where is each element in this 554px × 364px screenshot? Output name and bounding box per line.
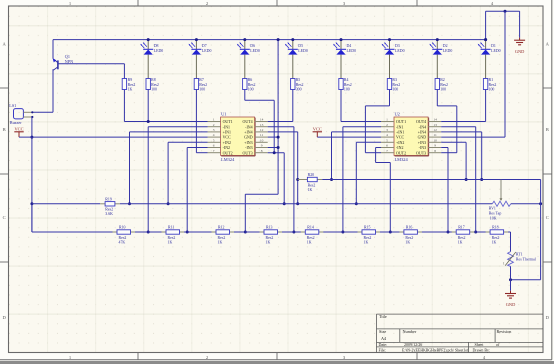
pin U2.6 -IN2	[381, 144, 394, 148]
svg-text:47K: 47K	[119, 241, 126, 245]
svg-text:Res Tap: Res Tap	[489, 211, 502, 215]
svg-text:R1: R1	[489, 78, 494, 82]
wire U2 +IN2	[356, 141, 381, 143]
pin U1.5 +IN2	[208, 138, 221, 142]
svg-text:Res2: Res2	[105, 208, 113, 212]
svg-text:13: 13	[260, 123, 264, 127]
svg-text:t: t	[503, 261, 504, 265]
svg-text:11: 11	[433, 133, 437, 137]
svg-text:1K: 1K	[405, 241, 410, 245]
window bottom bar	[0, 361, 554, 364]
sheet outer border right	[551, 0, 553, 360]
wire RV1 arch	[540, 180, 542, 280]
svg-text:4: 4	[386, 133, 388, 137]
svg-text:LED0: LED0	[491, 49, 501, 53]
pin U1.12 +IN4	[255, 128, 268, 132]
svg-text:Revision: Revision	[497, 329, 513, 334]
wire U2 GND riser	[504, 11, 506, 137]
svg-text:Drawn By:: Drawn By:	[473, 347, 491, 352]
node GND ladder tap	[244, 231, 247, 234]
wire RT1 bottom link	[511, 279, 541, 281]
pin U1.10 +IN3	[255, 138, 268, 142]
svg-text:Res2: Res2	[458, 236, 466, 240]
svg-text:U2: U2	[395, 111, 400, 116]
svg-text:Res2: Res2	[364, 236, 372, 240]
svg-text:OUT2: OUT2	[396, 150, 406, 155]
svg-text:1K: 1K	[128, 88, 133, 92]
LED D2	[429, 40, 452, 79]
resistor R2	[435, 78, 448, 91]
wire GND bus top	[486, 10, 520, 12]
pin U2.8 OUT3	[428, 149, 441, 153]
pin U1.3 +IN1	[208, 128, 221, 132]
svg-text:6: 6	[386, 144, 388, 148]
wire U1 -IN4	[268, 126, 294, 128]
svg-text:Buzzer: Buzzer	[10, 120, 22, 125]
LED D1	[478, 40, 501, 79]
LED D3	[382, 40, 405, 79]
ground GND top right	[519, 38, 521, 41]
wire OUT3 to ref chain	[283, 153, 285, 204]
wire D6 column to U1 OUT3	[244, 90, 246, 101]
node U2 +IN1 tap	[330, 178, 333, 181]
svg-text:R7: R7	[199, 78, 204, 82]
wire U2 +IN4	[441, 131, 482, 133]
svg-text:2: 2	[386, 123, 388, 127]
node bus GND drop junctions	[277, 38, 280, 41]
wire U1 +IN4	[268, 131, 298, 133]
resistor R7	[194, 78, 207, 91]
svg-text:C: C	[546, 215, 549, 220]
svg-text:VCC: VCC	[14, 126, 23, 131]
svg-text:U1: U1	[221, 111, 226, 116]
svg-text:LED0: LED0	[202, 49, 212, 53]
svg-text:12: 12	[433, 128, 437, 132]
wire bus GND drop	[277, 40, 279, 195]
svg-text:R13: R13	[266, 226, 273, 230]
node OUT3 ref tap	[283, 202, 286, 205]
svg-text:OUT2: OUT2	[223, 150, 233, 155]
svg-text:Res2: Res2	[296, 83, 304, 87]
pin LS1.2	[23, 116, 32, 118]
pin U1.7 OUT2	[208, 149, 221, 153]
node U2 -IN2 ladder tap	[389, 231, 392, 234]
resistor R12	[212, 226, 235, 245]
node OUT3 junction	[273, 151, 276, 154]
node U2 +IN2 ref tap	[355, 202, 358, 205]
wire U2 -IN3	[441, 147, 448, 149]
resistor R15	[358, 226, 381, 245]
svg-text:Res2: Res2	[440, 83, 448, 87]
wire U1 GND stub	[268, 136, 278, 138]
node bus junction D2	[436, 38, 439, 41]
svg-text:RV1: RV1	[489, 206, 496, 210]
wire U2 -IN1	[343, 126, 381, 128]
svg-text:9: 9	[434, 144, 436, 148]
wire D7 column to U1 OUT2	[195, 90, 197, 153]
zone divider ticks	[0, 87, 9, 89]
svg-text:OUT3: OUT3	[243, 150, 253, 155]
svg-text:R11: R11	[168, 226, 174, 230]
svg-text:7: 7	[213, 149, 215, 153]
svg-text:1: 1	[213, 118, 215, 122]
pin U2.1 OUT1	[381, 118, 394, 122]
svg-text:D6: D6	[250, 44, 255, 48]
svg-text:Number: Number	[403, 329, 417, 334]
wire wiper rail	[298, 179, 308, 181]
resistor R18	[486, 226, 509, 245]
pin U1.8 OUT3	[255, 149, 268, 153]
svg-text:R14: R14	[307, 226, 314, 230]
svg-text:10K: 10K	[490, 216, 497, 220]
wire U2 +IN3	[441, 141, 466, 143]
node bus junction D5	[291, 38, 294, 41]
svg-text:D2: D2	[443, 44, 448, 48]
resistor R11	[162, 226, 185, 245]
node -IN4 ladder tap	[292, 231, 295, 234]
node D8-OUT1 junction	[147, 120, 150, 123]
pin U2.3 +IN1	[381, 128, 394, 132]
svg-text:100: 100	[151, 88, 157, 92]
svg-text:100: 100	[248, 88, 254, 92]
pin U2.7 OUT2	[381, 149, 394, 153]
svg-text:12: 12	[260, 128, 264, 132]
svg-text:1K: 1K	[458, 241, 463, 245]
svg-text:13: 13	[433, 123, 437, 127]
wire RV1 right	[511, 203, 541, 205]
svg-text:Res Thermal: Res Thermal	[516, 258, 536, 262]
svg-text:C: C	[3, 215, 6, 220]
svg-text:100: 100	[199, 88, 205, 92]
pin U2.11 GND	[428, 133, 441, 137]
svg-text:14: 14	[433, 118, 437, 122]
svg-text:E:\09-2\(EEHKBGHteBPF2).pcb\ S: E:\09-2\(EEHKBGHteBPF2).pcb\ Sheet1of	[402, 348, 469, 352]
node bus-GND junction	[504, 10, 507, 13]
resistor R4	[339, 78, 352, 91]
pin U1.4 VCC	[208, 133, 221, 137]
svg-text:LM324: LM324	[395, 157, 409, 162]
pin U1.6 -IN2	[208, 144, 221, 148]
wire U2 +IN1	[332, 131, 382, 133]
wire U1 -IN3 stub	[268, 147, 278, 149]
svg-text:D8: D8	[154, 44, 159, 48]
svg-text:R10: R10	[119, 226, 126, 230]
pin U2.10 +IN3	[428, 138, 441, 142]
node U2 +IN3 tap	[465, 178, 468, 181]
wire U1 -IN2	[187, 147, 207, 149]
svg-text:Res2: Res2	[128, 83, 136, 87]
svg-text:R9: R9	[128, 78, 133, 82]
svg-text:LED0: LED0	[298, 49, 308, 53]
pin U2.2 -IN1	[381, 123, 394, 127]
ground GND bottom	[505, 293, 516, 295]
wire U1 +IN1	[130, 131, 208, 133]
potentiometer RV1 wiper arm	[500, 180, 502, 199]
resistor R8	[146, 78, 159, 91]
svg-text:1K: 1K	[168, 241, 173, 245]
wire D8 column	[147, 90, 149, 122]
svg-text:Size: Size	[379, 329, 386, 334]
wire D1 column to U2 OUT4	[485, 90, 487, 122]
wire RT1 to GND	[510, 266, 512, 279]
svg-text:1K: 1K	[308, 188, 313, 192]
op-amp U1	[221, 111, 256, 161]
svg-text:D1: D1	[491, 44, 496, 48]
svg-text:D7: D7	[202, 44, 207, 48]
svg-text:D5: D5	[298, 44, 303, 48]
resistor R16	[399, 226, 422, 245]
pin LS1.1	[23, 111, 32, 113]
svg-text:LED0: LED0	[347, 49, 357, 53]
svg-text:LS1: LS1	[9, 103, 16, 108]
svg-text:1: 1	[386, 118, 388, 122]
wire D2 column to U2 OUT3	[436, 90, 438, 106]
node bus junction D6	[243, 38, 246, 41]
node U2 -IN4 ladder tap	[474, 231, 477, 234]
svg-text:R12: R12	[218, 226, 225, 230]
node RV1 right junction	[539, 202, 542, 205]
svg-text:5: 5	[386, 138, 388, 142]
node -IN1 ladder tap	[147, 231, 150, 234]
node bus junction D1	[484, 38, 487, 41]
wire Q1 collector to buzzer	[32, 111, 53, 113]
wire D3 column to U2 OUT2	[389, 90, 391, 106]
wire U1 -IN1	[148, 126, 207, 128]
svg-text:A4: A4	[381, 336, 387, 341]
svg-text:7: 7	[386, 149, 388, 153]
wire GND stem top right	[519, 11, 521, 37]
wire U2 -IN2	[376, 147, 381, 149]
resistor R17	[452, 226, 475, 245]
node VCC junction	[30, 136, 33, 139]
svg-text:B: B	[546, 127, 549, 132]
wire Q1 base	[58, 63, 125, 65]
transistor Q1	[52, 40, 54, 59]
svg-text:100: 100	[440, 88, 446, 92]
resistor R5	[291, 78, 304, 91]
svg-text:NPN: NPN	[65, 59, 73, 64]
svg-text:R15: R15	[364, 226, 371, 230]
pin U2.9 -IN3	[428, 144, 441, 148]
pin U1.14 OUT4	[255, 118, 268, 122]
svg-text:OUT3: OUT3	[416, 150, 426, 155]
svg-text:4: 4	[213, 133, 215, 137]
LED D7	[189, 40, 212, 79]
svg-text:D4: D4	[347, 44, 352, 48]
svg-text:LED0: LED0	[154, 49, 164, 53]
LED D5	[285, 40, 308, 79]
LED D8	[140, 40, 163, 79]
node bus junction D8	[147, 38, 150, 41]
svg-text:R5: R5	[296, 78, 301, 82]
svg-text:Res2: Res2	[218, 236, 226, 240]
resistor R10	[113, 226, 136, 245]
svg-text:LED0: LED0	[250, 49, 260, 53]
wire U2 -IN4	[441, 126, 476, 128]
svg-text:Res2: Res2	[248, 83, 256, 87]
svg-text:1K: 1K	[307, 241, 312, 245]
svg-text:100: 100	[344, 88, 350, 92]
svg-text:R17: R17	[458, 226, 465, 230]
resistor R9	[123, 64, 125, 79]
wire VCC to U2 pin4	[317, 136, 381, 138]
LED D4	[333, 40, 356, 79]
pin U1.11 GND	[255, 133, 268, 137]
svg-text:1K: 1K	[266, 241, 271, 245]
resistor R13	[260, 226, 283, 245]
svg-text:Res2: Res2	[151, 83, 159, 87]
pin U2.4 VCC	[381, 133, 394, 137]
wire D5 column to U1 OUT4	[292, 90, 294, 122]
svg-text:R16: R16	[406, 226, 413, 230]
svg-text:14: 14	[260, 118, 264, 122]
svg-text:8: 8	[261, 149, 263, 153]
svg-text:8: 8	[434, 149, 436, 153]
wire buzzer pin2 drop	[31, 117, 33, 232]
resistor R3	[387, 78, 400, 91]
svg-text:RT1: RT1	[516, 253, 523, 257]
thermistor RT1	[508, 252, 514, 267]
svg-text:300: 300	[296, 88, 302, 92]
svg-text:Res2: Res2	[405, 236, 413, 240]
wire GND ladder	[32, 231, 117, 233]
node bus junction D4	[340, 38, 343, 41]
wire U1 +IN2	[168, 141, 207, 143]
svg-text:R3: R3	[392, 78, 397, 82]
svg-text:3: 3	[213, 128, 215, 132]
svg-text:VCC: VCC	[313, 126, 322, 131]
svg-text:Res2: Res2	[492, 236, 500, 240]
pin U1.2 -IN1	[208, 123, 221, 127]
svg-text:Res2: Res2	[489, 83, 497, 87]
node ref-chain left junction	[30, 202, 33, 205]
svg-text:100: 100	[392, 88, 398, 92]
op-amp U2	[394, 111, 429, 161]
node bus junction D3	[388, 38, 391, 41]
ground stem bottom	[510, 291, 512, 294]
svg-text:Res2: Res2	[307, 236, 315, 240]
wire R9 to U1 OUT1	[124, 121, 207, 123]
title block frame	[376, 314, 378, 352]
sheet outer border bottom	[0, 359, 552, 361]
svg-text:1K: 1K	[364, 241, 369, 245]
svg-text:GND: GND	[506, 302, 516, 307]
svg-text:GND: GND	[515, 49, 525, 54]
svg-text:R18: R18	[492, 226, 499, 230]
node U2 +IN4 tap	[480, 178, 483, 181]
wire LED bus	[53, 39, 486, 41]
node +IN1 ref tap	[128, 202, 131, 205]
wire bus riser	[485, 11, 487, 39]
svg-text:File:: File:	[379, 347, 386, 352]
svg-text:Res2: Res2	[392, 83, 400, 87]
svg-text:10: 10	[433, 138, 437, 142]
svg-text:Title: Title	[379, 314, 387, 319]
wire GND drop jog	[245, 193, 278, 195]
wire ref chain	[32, 203, 100, 205]
wire U2 GND to riser	[441, 136, 505, 138]
svg-text:10: 10	[260, 138, 264, 142]
pin U1.13 -IN4	[255, 123, 268, 127]
node bus junction D7	[195, 38, 198, 41]
buzzer LS1	[14, 109, 24, 119]
pin U2.12 +IN4	[428, 128, 441, 132]
wire ladder left drop	[31, 204, 33, 232]
svg-text:Res2: Res2	[308, 183, 316, 187]
pin U2.5 +IN2	[381, 138, 394, 142]
svg-text:D3: D3	[395, 44, 400, 48]
node +IN4 taps	[296, 178, 299, 181]
svg-text:R20: R20	[308, 173, 315, 177]
pin U2.13 -IN4	[428, 123, 441, 127]
node +IN2 ref tap	[167, 202, 170, 205]
resistor R14	[301, 226, 324, 245]
svg-text:2: 2	[213, 123, 215, 127]
node bus corner D1	[484, 38, 487, 41]
potentiometer RV1	[492, 201, 511, 206]
svg-text:Res2: Res2	[119, 236, 127, 240]
resistor R1	[483, 78, 496, 91]
wire D4 column to U2 OUT1	[340, 90, 342, 122]
svg-text:LED0: LED0	[395, 49, 405, 53]
svg-text:Res2: Res2	[199, 83, 207, 87]
svg-text:6: 6	[213, 144, 215, 148]
resistor R19	[105, 202, 115, 206]
svg-text:R19: R19	[105, 198, 112, 202]
node U2 -IN3 ladder tap	[447, 231, 450, 234]
svg-text:2009/12/26: 2009/12/26	[404, 342, 422, 347]
svg-text:1K: 1K	[218, 241, 223, 245]
node -IN2 ladder tap	[186, 231, 189, 234]
svg-text:11: 11	[260, 133, 264, 137]
pin U1.1 OUT1	[208, 118, 221, 122]
svg-text:9: 9	[261, 144, 263, 148]
svg-text:LED0: LED0	[443, 49, 453, 53]
node U2 -IN1 ladder tap	[341, 231, 344, 234]
svg-text:R2: R2	[440, 78, 445, 82]
svg-text:3: 3	[386, 128, 388, 132]
svg-text:R8: R8	[151, 78, 156, 82]
svg-text:R4: R4	[344, 78, 349, 82]
svg-text:R6: R6	[248, 78, 253, 82]
svg-text:LM324: LM324	[221, 157, 235, 162]
wire VCC to U1 pin4	[19, 136, 208, 138]
wire ladder to RT1	[510, 232, 512, 252]
node RT1-GND junction	[509, 278, 512, 281]
pin U1.9 -IN3	[255, 144, 268, 148]
svg-text:Res2: Res2	[168, 236, 176, 240]
svg-text:B: B	[3, 127, 6, 132]
resistor R20	[307, 177, 317, 181]
svg-text:100: 100	[489, 88, 495, 92]
LED D6	[237, 40, 260, 79]
resistor R6	[243, 78, 256, 91]
svg-text:5: 5	[213, 138, 215, 142]
svg-text:1K: 1K	[492, 241, 497, 245]
svg-text:3.6K: 3.6K	[105, 212, 113, 216]
svg-text:Res2: Res2	[344, 83, 352, 87]
svg-text:Res2: Res2	[266, 236, 274, 240]
pin U2.14 OUT4	[428, 118, 441, 122]
